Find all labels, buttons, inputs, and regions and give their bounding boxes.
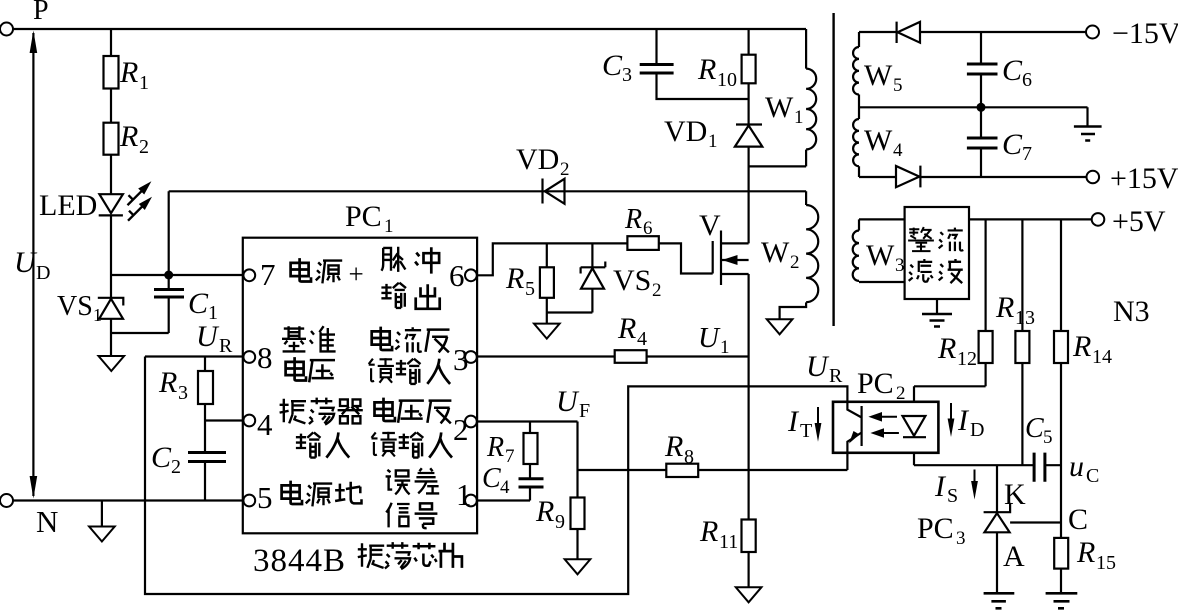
svg-text:8: 8 bbox=[684, 446, 694, 468]
svg-text:2: 2 bbox=[896, 383, 906, 404]
svg-text:2: 2 bbox=[652, 280, 662, 301]
svg-text:PC: PC bbox=[345, 200, 382, 233]
svg-text:C: C bbox=[1068, 503, 1088, 536]
svg-text:VS: VS bbox=[57, 291, 93, 322]
svg-text:U: U bbox=[196, 320, 220, 353]
svg-text:+5V: +5V bbox=[1112, 205, 1166, 238]
svg-text:C: C bbox=[602, 49, 623, 82]
svg-text:9: 9 bbox=[555, 511, 565, 533]
svg-text:1: 1 bbox=[456, 477, 472, 512]
svg-text:R: R bbox=[1072, 330, 1091, 363]
svg-text:W: W bbox=[866, 239, 895, 272]
svg-text:4: 4 bbox=[893, 140, 903, 161]
svg-text:PC: PC bbox=[857, 367, 894, 400]
svg-text:1: 1 bbox=[384, 216, 394, 237]
svg-text:R: R bbox=[158, 366, 177, 399]
svg-text:5: 5 bbox=[893, 75, 903, 96]
svg-text:8: 8 bbox=[257, 340, 273, 375]
svg-text:+15V: +15V bbox=[1110, 162, 1178, 195]
svg-text:3: 3 bbox=[956, 528, 966, 549]
svg-text:R: R bbox=[119, 120, 138, 153]
svg-text:PC: PC bbox=[917, 512, 954, 545]
svg-text:W: W bbox=[765, 91, 794, 124]
svg-text:11: 11 bbox=[719, 531, 738, 553]
svg-text:LED: LED bbox=[39, 189, 97, 222]
svg-text:4: 4 bbox=[637, 328, 647, 350]
svg-text:2: 2 bbox=[560, 159, 570, 180]
svg-text:−15V: −15V bbox=[1112, 17, 1178, 50]
svg-text:VS: VS bbox=[613, 264, 651, 297]
svg-text:C: C bbox=[1002, 128, 1023, 161]
svg-text:R: R bbox=[995, 291, 1014, 324]
svg-text:1: 1 bbox=[794, 107, 804, 128]
svg-text:5: 5 bbox=[257, 480, 273, 515]
svg-text:C: C bbox=[1086, 465, 1099, 487]
svg-text:6: 6 bbox=[643, 218, 653, 239]
svg-text:U: U bbox=[556, 385, 580, 418]
svg-text:C: C bbox=[151, 441, 172, 474]
svg-text:R: R bbox=[119, 56, 138, 89]
svg-text:13: 13 bbox=[1015, 307, 1035, 329]
svg-text:N3: N3 bbox=[1113, 295, 1150, 328]
svg-text:R: R bbox=[697, 53, 716, 86]
svg-text:15: 15 bbox=[1096, 552, 1116, 574]
svg-text:7: 7 bbox=[260, 257, 276, 292]
svg-text:3844B: 3844B bbox=[253, 543, 346, 579]
svg-text:U: U bbox=[806, 350, 830, 383]
svg-text:A: A bbox=[1003, 540, 1025, 573]
svg-text:S: S bbox=[947, 485, 958, 507]
svg-text:R: R bbox=[829, 365, 843, 387]
svg-text:R: R bbox=[699, 515, 718, 548]
svg-text:4: 4 bbox=[257, 407, 273, 442]
svg-text:u: u bbox=[1069, 450, 1084, 483]
svg-text:R: R bbox=[937, 332, 956, 365]
svg-text:2: 2 bbox=[139, 136, 149, 158]
svg-text:7: 7 bbox=[505, 446, 515, 467]
svg-text:+: + bbox=[349, 259, 364, 289]
svg-text:R: R bbox=[1076, 536, 1095, 569]
svg-text:W: W bbox=[864, 59, 893, 92]
svg-text:3: 3 bbox=[178, 382, 188, 404]
svg-text:R: R bbox=[505, 262, 524, 295]
svg-text:5: 5 bbox=[1043, 427, 1053, 448]
svg-text:14: 14 bbox=[1092, 346, 1112, 368]
svg-text:4: 4 bbox=[500, 477, 510, 498]
svg-text:D: D bbox=[36, 262, 50, 284]
svg-text:K: K bbox=[1004, 478, 1026, 511]
svg-text:C: C bbox=[482, 463, 501, 494]
svg-text:C: C bbox=[188, 287, 209, 320]
svg-text:U: U bbox=[698, 322, 721, 354]
svg-text:R: R bbox=[664, 430, 683, 463]
svg-text:1: 1 bbox=[93, 305, 102, 325]
svg-text:R: R bbox=[219, 335, 233, 357]
svg-text:3: 3 bbox=[622, 64, 632, 86]
svg-text:VD: VD bbox=[664, 115, 707, 148]
svg-text:R: R bbox=[535, 495, 554, 528]
svg-text:V: V bbox=[699, 209, 721, 242]
svg-text:12: 12 bbox=[957, 348, 977, 370]
svg-text:5: 5 bbox=[525, 278, 535, 300]
svg-text:R: R bbox=[486, 432, 504, 463]
svg-text:3: 3 bbox=[453, 342, 469, 377]
svg-text:C: C bbox=[1025, 413, 1044, 444]
svg-text:6: 6 bbox=[1022, 69, 1032, 91]
svg-text:3: 3 bbox=[895, 255, 905, 276]
svg-text:2: 2 bbox=[790, 252, 800, 273]
svg-text:7: 7 bbox=[1022, 143, 1032, 165]
svg-text:10: 10 bbox=[717, 69, 737, 91]
svg-text:VD: VD bbox=[516, 143, 559, 176]
svg-text:2: 2 bbox=[171, 456, 181, 478]
svg-text:R: R bbox=[624, 204, 642, 235]
svg-text:1: 1 bbox=[720, 337, 730, 358]
svg-text:P: P bbox=[33, 0, 49, 26]
svg-text:T: T bbox=[800, 420, 812, 442]
svg-text:U: U bbox=[14, 246, 38, 279]
svg-text:N: N bbox=[36, 504, 58, 539]
svg-text:1: 1 bbox=[139, 72, 149, 94]
svg-text:F: F bbox=[579, 400, 590, 422]
svg-text:2: 2 bbox=[453, 412, 469, 447]
svg-text:R: R bbox=[617, 312, 636, 345]
svg-text:W: W bbox=[761, 236, 790, 269]
svg-text:6: 6 bbox=[449, 258, 465, 293]
svg-text:C: C bbox=[1002, 54, 1023, 87]
svg-text:W: W bbox=[864, 124, 893, 157]
svg-text:1: 1 bbox=[708, 131, 718, 152]
svg-text:D: D bbox=[970, 419, 984, 441]
